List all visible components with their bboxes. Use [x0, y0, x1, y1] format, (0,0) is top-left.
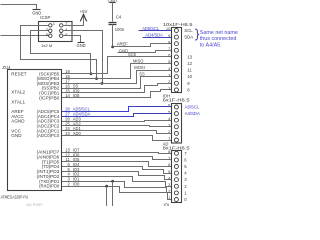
- svg-text:C4: C4: [116, 15, 122, 20]
- junction IO0 branch: [105, 185, 108, 188]
- wire AREF net to IOH pin8: [113, 42, 172, 47]
- svg-text:10: 10: [187, 74, 192, 79]
- op-amp IC U4 ATMEGA328P-PU: [1, 65, 62, 200]
- ground GND3 above C4: [108, 0, 117, 21]
- svg-text:SDA: SDA: [184, 35, 193, 40]
- header AD 6x1F-H8.5: [163, 93, 200, 143]
- header IOH 10x1F-H8.5: [163, 22, 193, 93]
- wire AD0 net pin23 to AD pin1: [62, 136, 172, 141]
- wire ICSP SCK to pin19: [31, 31, 91, 74]
- pin numbers 28-23 and AD net labels: [65, 107, 90, 136]
- wire GND net to IOH pin7: [118, 49, 172, 54]
- junction SCK row19: [90, 72, 93, 75]
- wire AD3 net pin26 to AD pin4: [62, 121, 172, 122]
- svg-text:AGND: AGND: [11, 119, 25, 124]
- wire IO3 net to IOL pin4: [62, 172, 172, 180]
- capacitor C4: [109, 15, 125, 47]
- svg-text:XTAL2: XTAL2: [11, 89, 25, 94]
- svg-text:to A4/A5.: to A4/A5.: [200, 43, 222, 49]
- pin numbers 19-14 and net labels: [65, 69, 80, 98]
- svg-text:SCK: SCK: [128, 52, 137, 57]
- wire IO4 net to IOL pin5: [62, 167, 172, 174]
- wire ICSP MOSI to pin17: [63, 31, 103, 84]
- wire AD4/SDA net pin27 to AD pin5 (blue): [62, 114, 172, 117]
- ground GND2 at ICSP pin6: [63, 36, 86, 48]
- junction C4/AREF: [111, 46, 114, 49]
- svg-text:AN PWR: AN PWR: [26, 202, 42, 206]
- svg-text:IO0: IO0: [73, 181, 80, 186]
- wire IO1 branch down: [112, 182, 114, 207]
- wire IO2 net to IOL pin3: [62, 177, 172, 187]
- wire MISO net pin18 to IOH pin5: [62, 59, 172, 79]
- svg-text:3x2 M: 3x2 M: [41, 43, 52, 48]
- brace for SCL/SDA (blue): [195, 29, 199, 40]
- svg-text:A4/SDA: A4/SDA: [185, 111, 200, 116]
- wire MOSI net pin17 to IOH pin4: [62, 65, 172, 83]
- wire to GND top-left: [1, 5, 37, 10]
- svg-text:+5V: +5V: [80, 9, 88, 14]
- wire IO5 net to IOL pin6: [62, 162, 172, 167]
- svg-text:AD0: AD0: [73, 131, 82, 136]
- svg-text:GND: GND: [77, 43, 86, 48]
- wire ICSP MISO to pin18: [21, 26, 97, 79]
- note Same net name (blue): [200, 30, 238, 49]
- svg-text:MOSI: MOSI: [134, 65, 144, 70]
- svg-text:6x1F-H8.5: 6x1F-H8.5: [163, 97, 190, 102]
- wire SCK net pin19 to IOH pin6: [62, 52, 172, 74]
- wire IO6 net to IOL pin7: [62, 157, 172, 160]
- svg-text:14: 14: [65, 93, 70, 98]
- svg-text:SCL: SCL: [184, 28, 193, 33]
- svg-text:Same net name: Same net name: [200, 30, 238, 36]
- svg-text:thus connected: thus connected: [200, 36, 237, 42]
- header IOL 8x1F-H8.5: [163, 141, 190, 207]
- svg-text:GND: GND: [11, 133, 22, 138]
- wire AD1 net pin24 to AD pin2: [62, 131, 172, 134]
- svg-text:(ICP)PB0: (ICP)PB0: [39, 95, 60, 100]
- svg-text:A5/SCL: A5/SCL: [185, 105, 200, 110]
- connector ICSP 3x2 header: [39, 15, 73, 48]
- wire RESET net to ICSP pin5: [1, 35, 49, 37]
- wire IO1 net to IOL pin2: [62, 182, 172, 193]
- pin numbers 13-2 and IO net labels: [65, 147, 80, 186]
- svg-text:10: 10: [166, 26, 171, 31]
- svg-text:100n: 100n: [115, 27, 125, 32]
- wire IO0 branch down: [106, 187, 108, 207]
- junction MOSI row17: [101, 82, 104, 85]
- svg-text:GND: GND: [119, 49, 128, 54]
- faint cropped text bottom: [26, 202, 42, 207]
- svg-text:(ADC0)PC0: (ADC0)PC0: [37, 133, 60, 138]
- svg-text:SS: SS: [139, 72, 145, 77]
- svg-text:AD5/SCL: AD5/SCL: [142, 26, 160, 31]
- svg-text:IO8: IO8: [73, 93, 80, 98]
- svg-text:12: 12: [187, 61, 192, 66]
- svg-text:XTAL1: XTAL1: [11, 100, 25, 105]
- svg-text:ATMEGA328P-PU: ATMEGA328P-PU: [1, 195, 29, 200]
- wire IO0 net to IOL pin1: [62, 187, 172, 200]
- svg-text:RESET: RESET: [11, 71, 27, 76]
- junction MISO row18: [95, 77, 98, 80]
- wire AD5/SCL stub to IOH pin10 (blue): [139, 26, 172, 31]
- svg-text:IOL: IOL: [164, 202, 171, 206]
- wire IO7 net to IOL pin8: [62, 153, 172, 154]
- wire IO9 net pin15 to IOH pin2: [62, 84, 172, 93]
- wire AD2 net pin25 to AD pin3: [62, 126, 172, 127]
- svg-text:8x1F-H8.5: 8x1F-H8.5: [163, 145, 190, 150]
- svg-text:23: 23: [65, 131, 70, 136]
- svg-text:AD4/SDA: AD4/SDA: [145, 33, 163, 38]
- svg-text:AREF: AREF: [117, 42, 129, 47]
- +5V supply symbol: [63, 9, 88, 26]
- svg-text:(RXD)PD0: (RXD)PD0: [39, 184, 60, 189]
- ground GND1 top-left: [32, 10, 41, 16]
- wire AD5/SCL net pin28 to AD pin6 (blue): [62, 107, 172, 112]
- svg-text:ICSP: ICSP: [40, 15, 50, 20]
- wire IO8 net pin14 to IOH pin1: [62, 90, 172, 98]
- svg-text:ZU4: ZU4: [2, 65, 11, 70]
- wire SS net pin16 to IOH pin3: [62, 72, 172, 89]
- svg-text:11: 11: [187, 68, 192, 73]
- svg-text:MISO: MISO: [133, 59, 143, 64]
- junction IO1 branch: [111, 180, 114, 183]
- wire AD4/SDA stub to IOH pin9 (blue): [143, 33, 172, 38]
- svg-text:13: 13: [187, 54, 192, 59]
